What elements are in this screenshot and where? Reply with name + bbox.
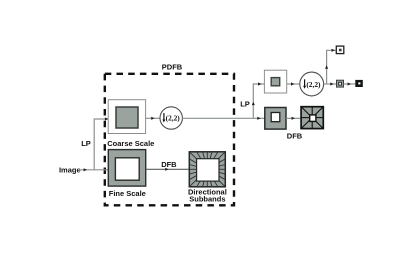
svg-text:Fine Scale: Fine Scale	[109, 189, 146, 198]
coarse scale box U1	[108, 100, 145, 134]
svg-text:LP: LP	[81, 139, 91, 148]
wire image input	[80, 169, 109, 171]
svg-text:PDFB: PDFB	[162, 63, 183, 72]
svg-text:DFB: DFB	[287, 132, 303, 141]
wire mini fine to mini fan	[286, 117, 301, 119]
svg-text:DFB: DFB	[161, 160, 177, 169]
arrowhead into top square	[332, 49, 335, 52]
dashed PDFB box	[105, 74, 234, 206]
mini coarse box	[264, 70, 286, 93]
arrowhead before circle2	[291, 82, 294, 85]
arrowhead into mini fine	[257, 117, 260, 120]
arrowhead into mid square	[330, 82, 333, 85]
svg-text:Subbands: Subbands	[189, 195, 225, 204]
middle mini output square	[337, 80, 344, 87]
wire vertical to top square	[327, 50, 337, 84]
dark output square	[355, 80, 363, 87]
arrowhead image	[84, 168, 87, 171]
directional subbands box	[189, 152, 225, 187]
wire circle2 out	[324, 83, 337, 85]
node junction level2	[253, 84, 264, 118]
svg-text:(2,2): (2,2)	[306, 80, 321, 89]
svg-text:Coarse Scale: Coarse Scale	[107, 139, 154, 148]
downsample circle2	[300, 72, 324, 96]
downsample circle1	[160, 107, 182, 129]
arrowhead DFB	[165, 168, 168, 171]
mini fan box	[301, 107, 323, 129]
arrowhead before circle1	[151, 117, 154, 120]
wire fine to dir subbands	[146, 168, 190, 170]
mini fine box	[265, 108, 286, 130]
wire LP branch vertical	[94, 119, 108, 170]
wire to mini fine	[253, 117, 264, 119]
svg-text:LP: LP	[240, 100, 250, 109]
wire coarse to circle1	[146, 117, 160, 119]
wire mini coarse to circle2	[287, 83, 300, 85]
arrowhead into coarse box	[105, 117, 108, 120]
wire LP output	[182, 117, 253, 119]
arrowhead into mini fan	[292, 117, 295, 120]
fine scale box	[108, 150, 145, 187]
svg-text:(2,2): (2,2)	[166, 114, 181, 123]
arrowhead up level2	[252, 102, 255, 105]
arrowhead into dark square	[348, 82, 351, 85]
arrowhead into mini coarse	[258, 82, 261, 85]
top mini output square	[336, 46, 344, 54]
arrowhead up	[325, 65, 328, 68]
svg-text:Image: Image	[59, 165, 81, 174]
wire mid to dark square	[344, 83, 356, 85]
